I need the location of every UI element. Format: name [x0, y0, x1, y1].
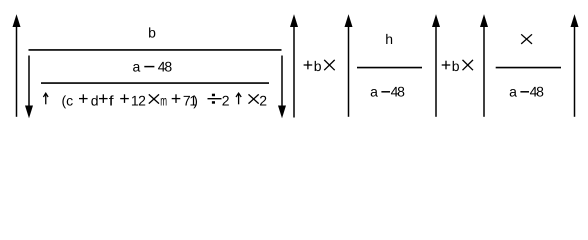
bottom row: plus 3 [120, 94, 129, 103]
svg-text:a: a [133, 58, 141, 74]
denominator first line: minus sign [144, 66, 154, 68]
svg-text:a: a [509, 83, 517, 99]
denominator minus sign (h fraction) [381, 91, 390, 93]
dimension arrow up (after h fraction) [432, 14, 440, 117]
numerator times sign [521, 34, 532, 44]
svg-text:b: b [314, 58, 322, 74]
bottom row: times sign 1 [149, 94, 159, 103]
operator group 1: plus sign [304, 61, 313, 70]
svg-text:f: f [109, 92, 114, 108]
svg-text:a: a [370, 83, 378, 99]
fraction bar 2 (main fraction, inner) [41, 82, 269, 84]
svg-text:d: d [91, 92, 99, 108]
svg-text:48: 48 [158, 58, 173, 74]
svg-text:(c: (c [62, 92, 74, 108]
bottom row: plus 2 [99, 94, 108, 103]
bottom row: divide sign [208, 94, 222, 104]
fraction bar 3 (h fraction) [357, 67, 422, 69]
svg-text:2: 2 [259, 92, 267, 108]
dimension arrow up (after main fraction) [290, 14, 298, 117]
svg-text:48: 48 [391, 83, 406, 99]
operator group 2: times sign [463, 60, 474, 70]
svg-text:): ) [193, 92, 198, 108]
svg-text:h: h [385, 31, 393, 47]
operator group 1: times sign [324, 60, 335, 70]
svg-text:m: m [160, 92, 167, 108]
dimension arrow up (before h fraction) [345, 14, 353, 117]
bottom row: up-arrow glyph 1 [43, 93, 48, 104]
dimension arrow up (before times fraction) [480, 14, 488, 117]
bottom row: up-arrow glyph 2 [236, 93, 241, 104]
dimension arrow down (right of main fraction) [278, 56, 286, 119]
bottom row: plus 1 [79, 94, 88, 103]
svg-text:b: b [148, 24, 156, 40]
dimension arrow up (far right) [571, 14, 579, 117]
denominator minus sign (times fraction) [520, 91, 529, 93]
operator group 2: plus sign [442, 61, 451, 70]
svg-text:b: b [452, 58, 460, 74]
svg-text:2: 2 [222, 92, 230, 108]
fraction bar 4 (times fraction) [496, 67, 561, 69]
fraction bar 1 (main fraction, top) [29, 49, 282, 51]
bottom row: plus 4 [172, 94, 181, 103]
svg-text:48: 48 [530, 83, 545, 99]
svg-text:12: 12 [131, 92, 146, 108]
dimension arrow up (full height, far left) [13, 14, 21, 117]
bottom row: times sign 2 [249, 94, 259, 103]
dimension arrow down (left, denominator height) [25, 56, 33, 119]
